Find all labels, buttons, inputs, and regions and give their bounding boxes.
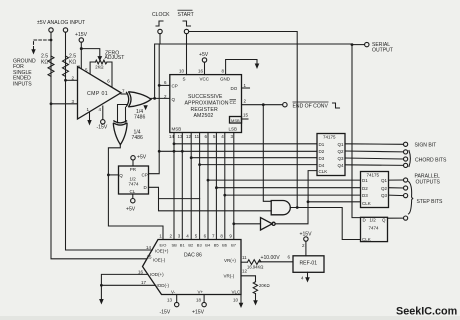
svg-text:B6: B6 [222, 243, 228, 248]
svg-text:CC: CC [230, 100, 237, 105]
svg-text:11: 11 [195, 134, 200, 139]
svg-text:Q2: Q2 [338, 149, 345, 154]
svg-text:16: 16 [138, 270, 144, 275]
svg-text:7474: 7474 [369, 226, 380, 231]
svg-text:D2: D2 [319, 149, 325, 154]
svg-text:7474: 7474 [129, 181, 140, 186]
svg-text:B7: B7 [231, 243, 237, 248]
svg-text:CP: CP [142, 172, 148, 177]
svg-text:VCC: VCC [200, 77, 210, 82]
svg-text:CLK: CLK [319, 169, 328, 174]
svg-text:Q3: Q3 [381, 193, 388, 198]
svg-text:10: 10 [233, 298, 239, 303]
svg-text:12: 12 [242, 269, 248, 274]
svg-text:B4: B4 [205, 243, 211, 248]
svg-text:11: 11 [242, 255, 247, 260]
svg-text:+5V: +5V [126, 207, 136, 213]
svg-text:VR(+): VR(+) [224, 258, 236, 263]
svg-text:12: 12 [186, 134, 192, 139]
svg-text:D4: D4 [319, 163, 325, 168]
svg-text:LSB: LSB [229, 127, 238, 132]
svg-text:D1: D1 [319, 142, 325, 147]
svg-text:SIGN BIT: SIGN BIT [415, 142, 437, 148]
svg-text:SeekIC.com: SeekIC.com [396, 306, 457, 318]
svg-text:Q2: Q2 [381, 186, 388, 191]
svg-text:SUCCESSIVE: SUCCESSIVE [188, 94, 223, 100]
svg-text:CHORD BITS: CHORD BITS [415, 157, 447, 163]
svg-text:1/2: 1/2 [370, 218, 377, 223]
svg-text:OUTPUTS: OUTPUTS [416, 179, 441, 185]
svg-text:IOE(-): IOE(-) [153, 258, 166, 263]
svg-text:74175: 74175 [367, 173, 380, 178]
svg-text:B3: B3 [197, 243, 203, 248]
svg-text:+15V: +15V [75, 32, 88, 38]
svg-text:SB: SB [172, 243, 178, 248]
svg-text:+5V: +5V [137, 155, 147, 161]
svg-text:74175: 74175 [323, 135, 336, 140]
svg-text:DAC 86: DAC 86 [184, 253, 202, 259]
svg-text:STEP BITS: STEP BITS [417, 199, 444, 205]
svg-text:2KΩ: 2KΩ [95, 65, 103, 70]
svg-text:MSB: MSB [231, 118, 240, 123]
svg-text:MSB: MSB [172, 127, 182, 132]
svg-text:Q3: Q3 [338, 156, 345, 161]
svg-text:+15V: +15V [192, 310, 205, 316]
svg-text:CL: CL [130, 189, 136, 194]
svg-text:OUTPUT: OUTPUT [372, 48, 393, 54]
svg-text:7486: 7486 [132, 135, 143, 141]
svg-text:AM2502: AM2502 [194, 113, 214, 119]
svg-text:17: 17 [141, 280, 147, 285]
svg-text:Q: Q [382, 218, 386, 223]
svg-text:Q1: Q1 [381, 178, 388, 183]
svg-text:V+: V+ [198, 289, 204, 294]
svg-text:16: 16 [198, 69, 204, 74]
svg-text:GND: GND [220, 77, 231, 82]
svg-text:14: 14 [146, 245, 152, 250]
svg-text:IOD(-): IOD(-) [157, 283, 170, 288]
svg-text:15: 15 [243, 113, 249, 118]
svg-text:Q1: Q1 [338, 142, 345, 147]
svg-text:18: 18 [196, 298, 202, 303]
svg-text:CMP 01: CMP 01 [87, 91, 108, 97]
svg-text:INPUTS: INPUTS [13, 81, 32, 87]
svg-text:14: 14 [169, 134, 175, 139]
svg-text:+10.00V: +10.00V [261, 255, 281, 261]
svg-text:10: 10 [179, 69, 185, 74]
svg-text:CLK: CLK [362, 201, 371, 206]
svg-text:D2: D2 [362, 186, 368, 191]
svg-text:-15V: -15V [160, 310, 171, 316]
svg-text:D3: D3 [362, 193, 368, 198]
svg-text:APPROXIMATION: APPROXIMATION [185, 101, 229, 107]
svg-text:Q4: Q4 [338, 163, 345, 168]
svg-text:Q: Q [172, 97, 176, 102]
svg-text:D3: D3 [319, 156, 325, 161]
svg-text:VLC: VLC [232, 289, 242, 294]
svg-text:V-: V- [171, 289, 176, 294]
svg-text:ADJUST: ADJUST [105, 55, 125, 61]
svg-text:20KΩ: 20KΩ [259, 283, 270, 288]
svg-text:END OF CONV: END OF CONV [293, 104, 329, 110]
svg-text:Q: Q [119, 173, 123, 178]
svg-text:S: S [183, 77, 186, 82]
svg-text:CLK: CLK [362, 237, 371, 242]
svg-text:KΩ: KΩ [69, 60, 76, 66]
svg-text:-15V: -15V [97, 125, 108, 131]
svg-text:VR(-): VR(-) [224, 274, 235, 279]
svg-text:+5V: +5V [199, 52, 209, 58]
svg-text:DO: DO [231, 86, 238, 91]
svg-text:15: 15 [147, 254, 153, 259]
svg-text:REF-01: REF-01 [300, 261, 318, 267]
svg-text:IOD(+): IOD(+) [150, 272, 164, 277]
svg-text:B2: B2 [188, 243, 194, 248]
svg-text:+15V: +15V [300, 232, 313, 238]
svg-text:D1: D1 [362, 178, 368, 183]
svg-text:7486: 7486 [134, 115, 145, 121]
svg-text:13: 13 [178, 134, 184, 139]
svg-text:B5: B5 [214, 243, 220, 248]
svg-text:13: 13 [167, 298, 173, 303]
svg-text:±5V ANALOG INPUT: ±5V ANALOG INPUT [37, 20, 85, 26]
svg-text:CLOCK: CLOCK [152, 12, 170, 18]
svg-text:CP: CP [172, 83, 178, 88]
svg-text:16.94KΩ: 16.94KΩ [247, 264, 263, 269]
svg-text:KΩ: KΩ [41, 60, 48, 66]
svg-text:PR: PR [130, 167, 137, 172]
svg-text:B1: B1 [180, 243, 186, 248]
svg-text:E/O: E/O [160, 243, 167, 248]
svg-text:START: START [178, 12, 194, 18]
svg-text:IOE(+): IOE(+) [155, 248, 169, 253]
